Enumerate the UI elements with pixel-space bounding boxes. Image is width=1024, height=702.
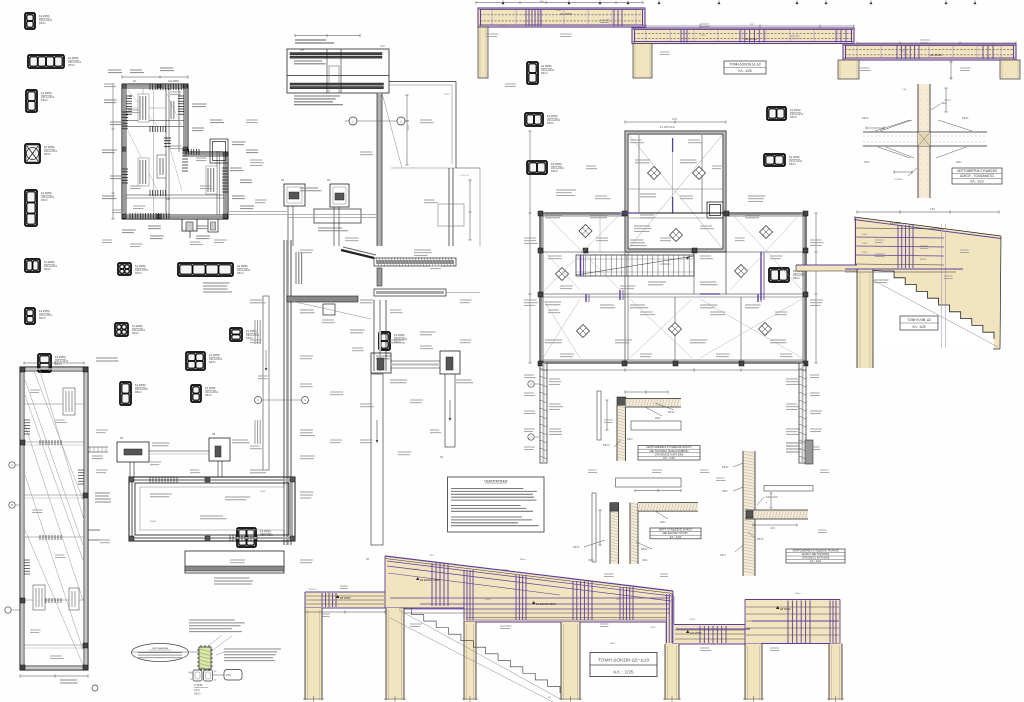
svg-text:4Φ14: 4Φ14 — [720, 554, 726, 557]
svg-text:Φ8/10: Φ8/10 — [757, 538, 764, 541]
svg-text:Κ1 25/50: Κ1 25/50 — [394, 333, 405, 337]
svg-text:446.1: 446.1 — [610, 643, 616, 645]
svg-text:ΚΛ.: 1/25: ΚΛ.: 1/25 — [738, 69, 751, 73]
svg-text:ΤΟΜΗ ΔΟΚΩΝ Δ1-Δ3: ΤΟΜΗ ΔΟΚΩΝ Δ1-Δ3 — [730, 63, 761, 67]
svg-text:Κ1 25/50: Κ1 25/50 — [41, 191, 52, 195]
svg-text:Φ8/10: Φ8/10 — [41, 99, 48, 102]
svg-text:1.00: 1.00 — [770, 528, 775, 530]
svg-text:Φ8/10: Φ8/10 — [55, 363, 62, 366]
svg-text:ΤΟΜΗ ΔΟΚΩΝ Δ5−Δ10: ΤΟΜΗ ΔΟΚΩΝ Δ5−Δ10 — [598, 658, 650, 664]
svg-text:Φ8/10: Φ8/10 — [44, 153, 51, 156]
svg-text:ΚΛ.: 1/10: ΚΛ.: 1/10 — [663, 456, 675, 460]
svg-text:Δ5 25/50: Δ5 25/50 — [340, 596, 351, 600]
svg-text:Φ8/10: Φ8/10 — [668, 411, 675, 414]
svg-text:2Φ12: 2Φ12 — [862, 233, 868, 236]
svg-text:Δ8 25/60: Δ8 25/60 — [780, 607, 791, 611]
svg-text:ΚΛ.: 1/10: ΚΛ.: 1/10 — [670, 535, 682, 539]
svg-text:Κ1 25/50: Κ1 25/50 — [790, 108, 801, 112]
svg-text:Κ30: Κ30 — [226, 673, 231, 677]
svg-text:Φ8/10: Φ8/10 — [41, 199, 48, 202]
svg-text:Κ1 25/50: Κ1 25/50 — [39, 14, 50, 18]
svg-text:Κ1 25/50: Κ1 25/50 — [44, 260, 55, 264]
svg-text:Κ1 25/50: Κ1 25/50 — [132, 324, 143, 328]
svg-text:Φ8/10: Φ8/10 — [44, 268, 51, 271]
svg-text:Κ1 25/50: Κ1 25/50 — [541, 64, 552, 68]
svg-text:ΛΕΠΤΟΜΕΡΕΙΑ ΣΥΝΔΕΣΗΣ: ΛΕΠΤΟΜΕΡΕΙΑ ΣΥΝΔΕΣΗΣ — [957, 169, 998, 173]
svg-text:Κ1 25/50: Κ1 25/50 — [41, 91, 52, 95]
svg-text:Φ8/10: Φ8/10 — [603, 444, 610, 447]
svg-text:Φ8/10: Φ8/10 — [194, 693, 201, 696]
svg-text:2Φ12: 2Φ12 — [655, 417, 661, 420]
svg-text:Κ1 25/50: Κ1 25/50 — [789, 155, 800, 159]
svg-text:4.25: 4.25 — [672, 118, 677, 121]
svg-text:ΟΠΛΙΣΜΟΣ ΚΑΤΑ ΕΚ8: ΟΠΛΙΣΜΟΣ ΚΑΤΑ ΕΚ8 — [802, 556, 830, 560]
svg-text:3.10: 3.10 — [407, 125, 410, 130]
svg-text:4.10/4.70: 4.10/4.70 — [460, 175, 470, 177]
svg-text:Σ1 ΚΑΤΟΨΗ: Σ1 ΚΑΤΟΨΗ — [660, 125, 675, 129]
svg-text:Φ8/10: Φ8/10 — [132, 332, 139, 335]
svg-text:Κ1 25/50: Κ1 25/50 — [547, 114, 558, 118]
svg-text:2Φ12: 2Φ12 — [700, 34, 706, 37]
svg-text:Φ8/10: Φ8/10 — [39, 22, 46, 25]
svg-text:Φ8/10: Φ8/10 — [641, 548, 648, 551]
svg-text:ΚΛ.: 1/10: ΚΛ.: 1/10 — [970, 180, 983, 184]
svg-text:Φ8/10: Φ8/10 — [551, 170, 558, 173]
svg-text:Δ11 25/60: Δ11 25/60 — [168, 80, 179, 83]
svg-text:300 μ: 300 μ — [795, 593, 801, 595]
svg-text:2Φ12: 2Φ12 — [862, 242, 868, 245]
svg-text:Κ1 25/50: Κ1 25/50 — [551, 162, 562, 166]
svg-text:Φ8/10: Φ8/10 — [135, 391, 142, 394]
svg-text:Δ1 20/50: Δ1 20/50 — [560, 12, 572, 16]
svg-text:ΛΕΠΤΟΜΕΡΕΙΑ: ΛΕΠΤΟΜΕΡΕΙΑ — [152, 647, 168, 650]
svg-text:Φ8/10: Φ8/10 — [39, 317, 46, 320]
svg-text:ΤΟΙΧΕΙΟ: ΤΟΙΧΕΙΟ — [894, 179, 903, 181]
svg-text:Κ1 25/50: Κ1 25/50 — [205, 386, 216, 390]
svg-text:Κ 25/50: Κ 25/50 — [194, 684, 203, 687]
svg-text:ΔΟΚΟΥ - ΤΟΙΧΩΜΑΤΟΣ: ΔΟΚΟΥ - ΤΟΙΧΩΜΑΤΟΣ — [960, 174, 994, 178]
svg-text:Φ8/10: Φ8/10 — [205, 394, 212, 397]
svg-text:2Φ14: 2Φ14 — [642, 559, 648, 562]
svg-text:Κ1 25/50: Κ1 25/50 — [135, 383, 146, 387]
svg-text:Φ8/10: Φ8/10 — [789, 163, 796, 166]
svg-text:2Φ12: 2Φ12 — [956, 161, 962, 164]
svg-text:Φ8/10: Φ8/10 — [237, 272, 244, 275]
svg-text:Φ8/10: Φ8/10 — [68, 64, 75, 67]
svg-text:Δ10 25/50: Δ10 25/50 — [690, 632, 702, 635]
svg-text:Φ8/10: Φ8/10 — [862, 117, 869, 120]
svg-text:Κ1 25/50: Κ1 25/50 — [260, 529, 271, 533]
svg-text:Κ1 25/50: Κ1 25/50 — [55, 355, 66, 359]
svg-text:Δ4 ΔΟΚΟΣ 25/60: Δ4 ΔΟΚΟΣ 25/60 — [536, 602, 556, 606]
svg-text:ΚΛ.: 1/10: ΚΛ.: 1/10 — [810, 559, 822, 563]
svg-text:Φ8/10: Φ8/10 — [722, 466, 729, 469]
svg-text:Φ8/10: Φ8/10 — [793, 277, 800, 280]
svg-text:4.35: 4.35 — [930, 209, 935, 211]
svg-text:Κ1 25/50: Κ1 25/50 — [209, 353, 220, 357]
svg-text:Φ8/10: Φ8/10 — [790, 116, 797, 119]
svg-text:ΣΤΑΘΜΗ: ΣΤΑΘΜΗ — [308, 588, 317, 591]
svg-text:Φ8/10: Φ8/10 — [150, 520, 157, 523]
svg-text:2Φ10: 2Φ10 — [627, 438, 633, 441]
svg-text:ΠΑΡΑΤΗΡΗΣΕΙΣ: ΠΑΡΑΤΗΡΗΣΕΙΣ — [484, 479, 507, 483]
svg-text:ΛΕΠΤΟΜΕΡΕΙΑ ΣΥΝΔΕΣΗΣ ΠΛΑΚΑΣ: ΛΕΠΤΟΜΕΡΕΙΑ ΣΥΝΔΕΣΗΣ ΠΛΑΚΑΣ — [792, 549, 839, 553]
svg-text:2Φ12: 2Φ12 — [444, 93, 450, 96]
svg-text:Δ14: Δ14 — [300, 49, 305, 52]
svg-text:415.1: 415.1 — [690, 619, 696, 621]
svg-text:2Φ14: 2Φ14 — [588, 559, 594, 562]
svg-text:2Φ12: 2Φ12 — [556, 9, 562, 12]
svg-text:Κ1 25/50: Κ1 25/50 — [44, 145, 55, 149]
svg-text:Φ8/10: Φ8/10 — [209, 361, 216, 364]
svg-text:Δ2 20/50: Δ2 20/50 — [745, 37, 757, 41]
svg-text:2Φ12: 2Φ12 — [413, 568, 419, 571]
svg-text:Κ1 25/50: Κ1 25/50 — [135, 264, 146, 268]
svg-text:ΚΛ.: 1/25: ΚΛ.: 1/25 — [912, 325, 925, 329]
svg-text:Δ13: Δ13 — [166, 198, 171, 201]
svg-text:2.10: 2.10 — [380, 45, 385, 48]
svg-text:Δ9 ΔΟΚΟΣ 25/60: Δ9 ΔΟΚΟΣ 25/60 — [420, 578, 440, 582]
svg-text:Δ2 25/50: Δ2 25/50 — [890, 221, 901, 225]
svg-text:4Φ20: 4Φ20 — [485, 598, 491, 601]
svg-text:2Φ12: 2Φ12 — [864, 161, 870, 164]
svg-text:2Φ14: 2Φ14 — [500, 24, 506, 27]
svg-text:Δ3 20/50: Δ3 20/50 — [930, 53, 942, 57]
svg-text:2Φ12: 2Φ12 — [862, 251, 868, 254]
svg-text:Φ8/10: Φ8/10 — [135, 272, 142, 275]
svg-text:995 μ: 995 μ — [520, 559, 526, 561]
svg-text:2Φ12: 2Φ12 — [900, 50, 906, 53]
svg-text:Κ1 25/50: Κ1 25/50 — [39, 309, 50, 313]
svg-text:Φ8/10: Φ8/10 — [547, 122, 554, 125]
svg-text:Φ8/10: Φ8/10 — [541, 72, 548, 75]
svg-text:2Φ12: 2Φ12 — [660, 521, 666, 524]
svg-text:4Φ14: 4Φ14 — [941, 102, 947, 105]
svg-text:Κ1 25/50: Κ1 25/50 — [237, 264, 248, 268]
svg-text:ΚΛ. : 1/25: ΚΛ. : 1/25 — [613, 670, 634, 675]
svg-text:2Φ12: 2Φ12 — [616, 598, 622, 601]
svg-text:Κ1 25/50: Κ1 25/50 — [68, 56, 79, 60]
svg-text:ΤΟΜΗ ΚΛΙΜ. Δ2: ΤΟΜΗ ΚΛΙΜ. Δ2 — [907, 318, 931, 322]
svg-text:ΚΛΙΜΑΚΑ: ΚΛΙΜΑΚΑ — [660, 263, 671, 266]
svg-text:Φ8/10: Φ8/10 — [920, 258, 927, 261]
svg-text:2Φ12: 2Φ12 — [722, 490, 728, 493]
svg-text:ΔΟΚΟΥ ΜΕ ΤΟΙΧΩΜΑ: ΔΟΚΟΥ ΜΕ ΤΟΙΧΩΜΑ — [802, 552, 830, 556]
svg-text:2Φ14: 2Φ14 — [650, 626, 656, 629]
svg-text:Φ8/10: Φ8/10 — [962, 117, 969, 120]
svg-text:Φ8/10 ΑΝΩ: Φ8/10 ΑΝΩ — [766, 496, 778, 499]
svg-text:2Φ14: 2Φ14 — [260, 490, 266, 493]
svg-text:Φ8/10: Φ8/10 — [573, 546, 580, 549]
